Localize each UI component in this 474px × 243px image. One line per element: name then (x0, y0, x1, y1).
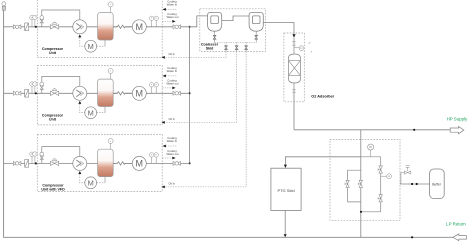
wire bridge between coalescers (222, 16, 249, 21)
svg-text:Skid: Skid (206, 46, 214, 50)
svg-text:HP Supply: HP Supply (447, 117, 468, 122)
svg-text:PI: PI (369, 145, 372, 149)
coalescer vessel 1 (208, 12, 222, 42)
wire PTG outlet (284, 210, 286, 234)
svg-text:PTG Skid: PTG Skid (277, 188, 294, 193)
compressor unit 3 box (37, 135, 162, 192)
svg-text:O2 Adsorber: O2 Adsorber (311, 94, 334, 98)
wire left bypass loop (348, 170, 361, 202)
wire drain header (215, 42, 257, 44)
svg-text:Oil in: Oil in (169, 52, 176, 56)
node on HP line (413, 129, 415, 131)
svg-text:Unit with VFD: Unit with VFD (41, 187, 65, 191)
buffer vessel (430, 169, 445, 199)
node collector row1 junction (189, 26, 191, 28)
wire center vertical (360, 130, 362, 238)
coalescer vessel 2 (249, 12, 263, 42)
valve bypass left (345, 180, 349, 187)
valve right top (378, 166, 382, 173)
compressor unit 2 box (37, 65, 162, 125)
valve outlet (293, 90, 296, 93)
svg-text:Unit: Unit (49, 51, 57, 55)
adsorber vessel (289, 54, 301, 83)
node on LP line (411, 236, 413, 238)
drop valve 1 (224, 43, 227, 52)
svg-text:LP Return: LP Return (446, 222, 466, 227)
svg-text:%: % (311, 52, 313, 54)
svg-text:Oil in: Oil in (169, 182, 176, 186)
HP supply arrow (450, 126, 464, 133)
wire oil in row3 (165, 51, 246, 187)
compressor unit 1 box (37, 0, 162, 57)
check valve (292, 34, 295, 37)
drop valve 3 (245, 43, 248, 52)
node x2 on buffer line (411, 183, 413, 185)
valve right bottom (378, 195, 382, 202)
wire to valve (293, 38, 295, 42)
PTG skid box (271, 168, 301, 210)
LP return arrow (453, 234, 467, 241)
wire header to PTG (285, 157, 360, 165)
wire collector vertical (189, 27, 191, 164)
wire coalescer outlet (263, 23, 294, 35)
svg-text:Unit: Unit (49, 117, 57, 121)
wire down to HP line (293, 93, 295, 130)
wire header right (361, 156, 381, 158)
svg-text:o2: o2 (309, 43, 311, 45)
svg-text:Buffer: Buffer (432, 182, 442, 186)
wire oil in row2 (165, 51, 237, 122)
instrument feed top (2, 2, 6, 6)
drop valve 2 (235, 43, 238, 52)
wire to vessel (293, 45, 295, 54)
wire right leg (361, 157, 381, 212)
buffer skid box (330, 139, 400, 220)
wire row1 to coalescer (190, 16, 208, 27)
valve center (358, 180, 362, 187)
coalescer skid box (200, 9, 266, 52)
wire adsorber outlet (293, 83, 295, 90)
relief valve branch (401, 173, 404, 185)
instrument right (381, 175, 387, 177)
wire oil in row1 (165, 51, 226, 57)
instrument PT (294, 47, 299, 49)
svg-text:Oil in: Oil in (169, 117, 176, 121)
wire buffer line (400, 183, 430, 185)
node collector row2 junction (189, 92, 191, 94)
node bottom (360, 211, 362, 213)
valve isolation (293, 42, 296, 46)
instrument PI (370, 150, 372, 157)
O2 adsorber box (284, 33, 304, 102)
wire HP supply line (294, 129, 450, 131)
node collector row3 junction (189, 162, 191, 164)
